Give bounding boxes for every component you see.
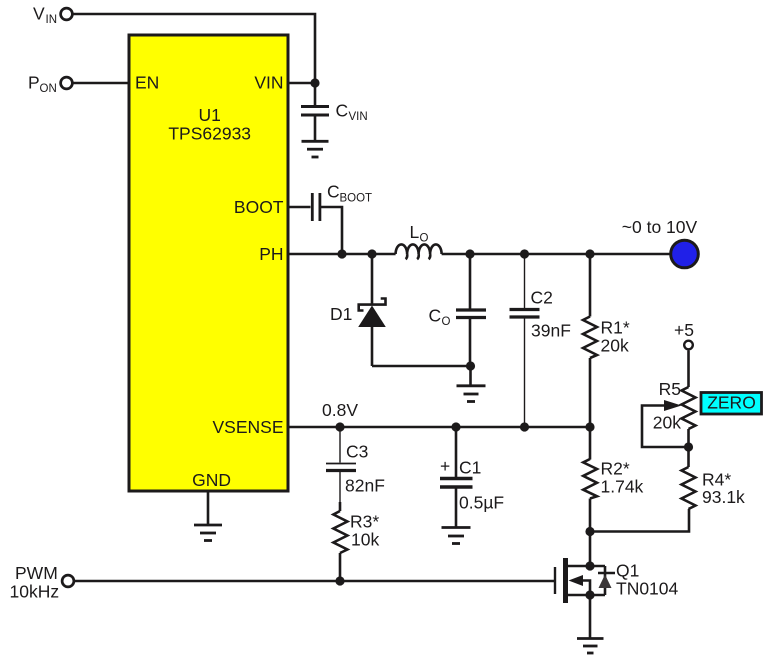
svg-text:O: O (442, 316, 451, 328)
node C2 junction (520, 249, 529, 258)
svg-text:PH: PH (259, 244, 283, 264)
wire Q1 source to ground (589, 595, 592, 638)
wire PH rail to output (442, 253, 670, 256)
terminal VIN input (33, 4, 72, 27)
diode D1 schottky (330, 254, 386, 366)
svg-text:P: P (28, 73, 40, 93)
resistor R2 (583, 427, 643, 532)
label ZERO (701, 393, 762, 415)
ground below Q1 (577, 639, 604, 654)
svg-text:L: L (410, 222, 420, 242)
node C2/VSENSE junction (520, 422, 529, 431)
wire D1 anode to ground node (372, 365, 471, 368)
potentiometer R5 (642, 379, 696, 447)
resistor R3 (333, 502, 379, 581)
svg-text:93.1k: 93.1k (702, 487, 745, 507)
svg-text:ZERO: ZERO (707, 393, 756, 413)
svg-text:R5: R5 (659, 379, 681, 399)
svg-text:Q1: Q1 (616, 561, 639, 581)
wire Q1 drain (589, 532, 592, 567)
node Q1 source (585, 590, 594, 599)
node D1 junction (367, 249, 376, 258)
node VIN junction (310, 78, 319, 87)
capacitor CBOOT (312, 182, 372, 222)
svg-text:10kHz: 10kHz (10, 582, 60, 602)
node R3/PWM junction (335, 576, 344, 585)
svg-text:~0 to 10V: ~0 to 10V (622, 217, 698, 237)
svg-text:1.74k: 1.74k (601, 477, 644, 497)
svg-text:10k: 10k (351, 530, 379, 550)
svg-text:V: V (33, 4, 45, 24)
svg-text:PWM: PWM (15, 563, 58, 583)
transistor Q1 NMOS (555, 558, 679, 603)
svg-text:82nF: 82nF (345, 476, 385, 496)
node CBOOT/PH junction (337, 249, 346, 258)
capacitor C3 (326, 427, 385, 502)
wire PWM to gate (75, 580, 555, 583)
svg-text:GND: GND (192, 470, 231, 490)
svg-text:20k: 20k (601, 336, 629, 356)
node R2/Q1 drain junction (585, 527, 594, 536)
svg-text:+: + (440, 456, 450, 476)
svg-text:O: O (420, 233, 429, 245)
capacitor C1 (440, 427, 504, 527)
svg-text:IN: IN (46, 14, 58, 26)
svg-text:C: C (336, 101, 349, 121)
svg-text:BOOT: BOOT (234, 197, 284, 217)
node Q1 drain (585, 561, 594, 570)
terminal +5 (674, 320, 694, 349)
svg-text:+5: +5 (674, 320, 694, 340)
svg-text:20k: 20k (653, 413, 681, 433)
capacitor CO (429, 254, 487, 366)
node C1 junction (451, 422, 460, 431)
svg-text:0.5µF: 0.5µF (459, 493, 504, 513)
output node ~0 to 10V (622, 217, 699, 268)
svg-text:ON: ON (40, 83, 57, 95)
terminal PWM input (10, 563, 74, 602)
svg-text:VIN: VIN (254, 73, 283, 93)
node CO junction (465, 249, 474, 258)
svg-text:U1: U1 (199, 105, 221, 125)
IC U1 TPS62933 (129, 35, 288, 491)
node R1/R2 junction (585, 422, 594, 431)
svg-text:VIN: VIN (349, 111, 368, 123)
wire CBOOT to PH (321, 207, 343, 254)
wire +5 to R5 (687, 351, 690, 388)
capacitor CVIN (301, 83, 368, 141)
svg-text:BOOT: BOOT (340, 193, 373, 205)
inductor LO (396, 222, 442, 259)
ground below CVIN (302, 141, 329, 157)
ground below CO (457, 366, 486, 402)
wire VSENSE rail (288, 426, 590, 429)
node C3 junction (335, 422, 344, 431)
svg-text:TPS62933: TPS62933 (168, 124, 251, 144)
resistor R4 (682, 447, 746, 509)
svg-text:C2: C2 (531, 288, 553, 308)
capacitor C2 (510, 254, 571, 427)
ground below C1 (442, 528, 471, 544)
wire VIN top (73, 14, 315, 83)
svg-text:VSENSE: VSENSE (213, 417, 284, 437)
svg-text:R2*: R2* (601, 459, 630, 479)
ground GND pin (194, 491, 222, 541)
svg-text:TN0104: TN0104 (616, 579, 679, 599)
wire VIN pin (288, 82, 315, 85)
terminal PON input (28, 73, 72, 96)
svg-text:C1: C1 (459, 458, 481, 478)
node R5 wiper junction (684, 442, 693, 451)
svg-text:C: C (327, 182, 340, 202)
svg-text:C: C (429, 306, 442, 326)
node R1 junction (585, 249, 594, 258)
svg-text:R3*: R3* (350, 512, 379, 532)
svg-text:39nF: 39nF (531, 321, 571, 341)
wire BOOT pin (288, 206, 311, 209)
wire PON to EN (73, 82, 129, 85)
svg-text:0.8V: 0.8V (322, 400, 358, 420)
resistor R1 (583, 254, 630, 427)
node CO/D1 ground junction (466, 361, 475, 370)
svg-text:D1: D1 (330, 304, 352, 324)
svg-text:EN: EN (135, 73, 159, 93)
wire R2 node to R4 (590, 509, 689, 532)
svg-text:R1*: R1* (601, 318, 630, 338)
wire PH rail (288, 253, 396, 256)
svg-text:C3: C3 (346, 442, 368, 462)
